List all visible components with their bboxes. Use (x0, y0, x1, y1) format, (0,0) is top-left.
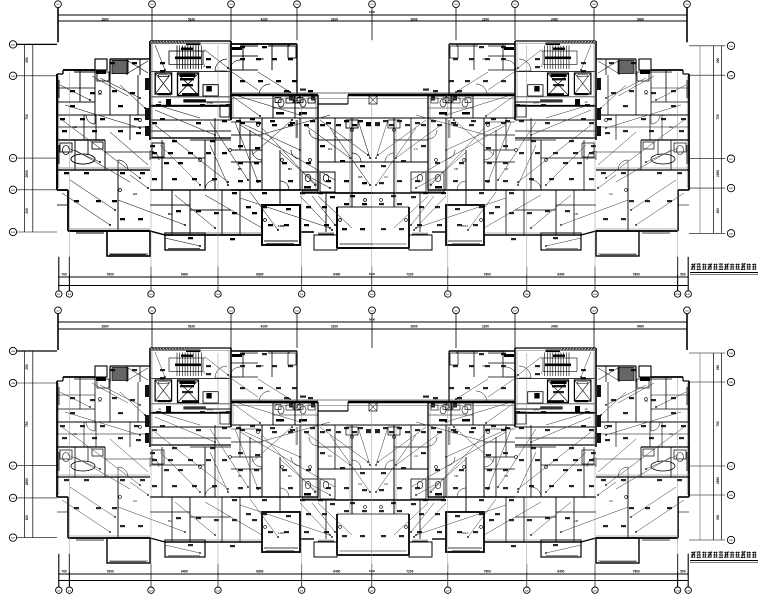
label speck 53 (70, 105, 75, 107)
plan2 bottom axis stem B10 (677, 554, 679, 587)
mid band top wall inner face (231, 98, 515, 100)
door arc rm8 (205, 180, 215, 190)
svg-text:5-C: 5-C (729, 466, 733, 468)
label speck 105 (120, 218, 125, 220)
mid band top wall thick left segment (231, 94, 318, 96)
plan2 axis grid line G9 (677, 378, 679, 572)
plan2 left axis bubble L1 (9, 347, 16, 354)
elevator 2 door sill (182, 93, 198, 95)
wing wall h y127 (57, 126, 150, 128)
svg-text:300: 300 (716, 515, 720, 521)
svg-text:5-A: 5-A (729, 352, 733, 355)
plan2 left dim vline 1 (24, 351, 26, 538)
plan1 left dim vline 2 (32, 44, 34, 232)
plan2 right axis bubble R1 (727, 349, 734, 356)
wire w9 end dot (369, 184, 371, 186)
svg-text:5-B: 5-B (729, 382, 733, 384)
svg-text:7600: 7600 (484, 569, 491, 573)
bottom inner face 2 (165, 232, 262, 234)
plan2 left axis bubble L4 (9, 494, 16, 501)
plan1 bottom axis stem B4 (217, 267, 219, 291)
elevator 1 X b (155, 73, 172, 94)
elevator machine room (203, 85, 218, 96)
lobby text 176kg (183, 99, 205, 102)
wire x3 (160, 106, 200, 118)
mid wall h y162b (231, 161, 262, 163)
svg-text:700: 700 (61, 272, 67, 276)
plan2 axis grid line G3 (217, 353, 219, 572)
plan1 left dim vline 1 (24, 44, 26, 232)
label speck 94 (176, 210, 181, 212)
label speck 77 (366, 124, 371, 126)
wire w12 end dot (247, 179, 249, 181)
plan2 right dim vline 2 (721, 353, 723, 540)
wire w10 end dot (199, 245, 201, 247)
label speck 107 (74, 200, 79, 202)
balcony B outline (165, 233, 205, 250)
plan2 left axis tick L4 (16, 497, 57, 499)
bottom strip wall v x222 (221, 190, 223, 235)
label speck 87 (362, 182, 367, 184)
wire w17 end dot (227, 67, 229, 69)
wire w30 (100, 78, 140, 98)
plan2 bottom axis stem B8 (526, 564, 528, 587)
bath small box 1 (275, 98, 281, 103)
corridor bottom line (150, 137, 231, 139)
wire w10 (165, 238, 200, 246)
duct box X b (294, 96, 300, 103)
label speck 73 (304, 124, 309, 126)
plan1 bottom axis bubble B10 (674, 291, 680, 297)
plan2 bottom axis stem B11 (687, 554, 689, 587)
plan1 top dimension line 1 (58, 14, 688, 16)
label speck 117 (292, 80, 297, 82)
plan2 bottom axis bubble B2 (66, 587, 72, 593)
plan1 bottom axis bubble B4 (215, 291, 221, 297)
plan2 top axis bubble T4 (294, 307, 301, 314)
wall left outer inner face (58, 76, 60, 188)
label speck 89 (262, 206, 267, 208)
plan1 top dimension line 2 (58, 20, 688, 22)
label speck 78 (238, 162, 243, 164)
label speck 42 (226, 104, 231, 106)
wire w29 end dot (329, 187, 331, 189)
wire w23 end dot (139, 127, 141, 129)
basin left wing (92, 142, 103, 149)
svg-text:500: 500 (680, 272, 686, 276)
label speck 112 (272, 58, 277, 60)
plan1 top axis bubble T1 (55, 1, 62, 8)
plan1 top axis bubble T2 (149, 1, 156, 8)
shaft diagonal (128, 61, 148, 73)
wire w2 end dot (114, 209, 116, 211)
plan1 top axis bubble T7 (512, 1, 519, 8)
svg-text:750: 750 (25, 114, 29, 120)
wire w17 (205, 50, 228, 68)
wire w21 (210, 145, 228, 185)
plan2 bottom axis bubble B10 (674, 587, 680, 593)
svg-text:2600: 2600 (410, 324, 417, 328)
svg-text:7800: 7800 (633, 569, 640, 573)
light symbol 1 (99, 91, 102, 94)
plan2 bottom dimension line 1 (58, 573, 689, 575)
plan2 bottom axis bubble B4 (215, 587, 221, 593)
x318 inner face (315, 95, 317, 190)
plan1 right axis tick R1 (689, 45, 725, 47)
label speck 19 (150, 145, 155, 147)
light symbol 7 (199, 159, 202, 162)
label speck 121 (206, 66, 211, 68)
bathroom 2 (295, 96, 318, 118)
plan2 axis grid line G6 (447, 403, 449, 572)
svg-text:6400: 6400 (557, 569, 564, 573)
plan2 right outer extension line (699, 353, 701, 540)
mid band top second line (231, 92, 515, 94)
bathtub left wing (71, 154, 95, 164)
svg-text:6800: 6800 (256, 272, 263, 276)
svg-text:6400: 6400 (369, 569, 376, 573)
label speck 59 (136, 132, 141, 134)
plan2 top axis bubble T8 (591, 307, 598, 314)
label speck 69 (240, 122, 245, 124)
wire w20 (160, 145, 200, 185)
label speck 16 (320, 145, 325, 147)
label speck 75 (336, 124, 341, 126)
label speck 66 (172, 178, 177, 180)
label speck 13 (366, 122, 371, 124)
svg-text:4200: 4200 (260, 324, 267, 328)
svg-text:5-E: 5-E (11, 232, 15, 234)
svg-text:5-B: 5-B (11, 76, 15, 78)
floor plan right half (mirrored) (231, 41, 689, 256)
wire w24 end dot (299, 149, 301, 151)
label speck 90 (306, 206, 311, 208)
svg-text:6800: 6800 (256, 569, 263, 573)
wire w32 end dot (369, 157, 371, 159)
wire w33 end dot (334, 224, 336, 226)
svg-text:5-E: 5-E (11, 538, 15, 540)
svg-text:5-D: 5-D (11, 190, 15, 192)
bath text blob 2 (299, 112, 307, 115)
toilet bowl (63, 146, 70, 155)
svg-text:750: 750 (25, 421, 29, 427)
wire w13 (118, 200, 185, 225)
wire w30 end dot (139, 97, 141, 99)
bottom strip wall v x172 (171, 190, 173, 235)
elevator 1 X a (155, 73, 172, 94)
plan1 right axis tick R3 (689, 158, 725, 160)
plan1 bottom axis stem B7 (447, 267, 449, 291)
svg-text:6400: 6400 (369, 272, 376, 276)
wire w13 end dot (184, 224, 186, 226)
label speck 82 (238, 180, 243, 182)
room wall h y190 left (150, 189, 231, 191)
corridor inner line (231, 121, 260, 123)
svg-text:5100: 5100 (188, 324, 195, 328)
plan2 top axis bubble T6 (453, 307, 460, 314)
wing wall v x96b (95, 115, 97, 140)
light symbol 9 (119, 189, 122, 192)
elevator 1 shaft (155, 73, 172, 94)
plan1 bottom axis bubble B5 (299, 291, 305, 297)
lobby room wall h y158 (150, 157, 205, 159)
plan1 bottom axis bubble B3 (148, 291, 154, 297)
wall bath bottom (57, 169, 150, 171)
wire w11 end dot (291, 119, 293, 121)
door arc entrance 2 (259, 84, 270, 95)
plan1 bottom axis bubble B6 (369, 291, 375, 297)
label speck 114 (240, 80, 245, 82)
entrance right wall (296, 44, 298, 95)
wire w5 end dot (257, 181, 259, 183)
label speck 110 (240, 58, 245, 60)
core A right wall (230, 41, 232, 120)
elevator 2 X b (178, 73, 199, 96)
plan2 bottom axis stem B7 (447, 564, 449, 587)
bottom strip wall v x240 (239, 190, 241, 235)
label speck 97 (232, 212, 237, 214)
plan2 bottom axis stem B3 (150, 564, 152, 587)
room wall h y162 (318, 161, 373, 163)
plan 2 group (translated copy) (57, 348, 689, 563)
entrance closet (288, 46, 296, 58)
mid wall h y140b (318, 139, 352, 141)
plan1 right axis bubble R1 (727, 42, 734, 49)
label speck 11 (344, 120, 349, 122)
label speck 84 (288, 180, 293, 182)
wire w33 (312, 196, 335, 225)
plan1 top axis stem T7 (514, 8, 516, 41)
wire x2 (92, 76, 128, 96)
svg-text:5-B: 5-B (11, 383, 15, 385)
plan2 bottom axis stem B2 (68, 554, 70, 587)
label speck 115 (258, 80, 263, 82)
plan2 top axis bubble T3 (228, 307, 235, 314)
wall bath v1 (74, 140, 76, 170)
core A top wall (150, 40, 231, 42)
plan1 left axis tick L1 (16, 43, 57, 45)
wire w14 end dot (331, 229, 333, 231)
plan1 left axis bubble L5 (9, 228, 16, 235)
entrance inner wall (231, 69, 258, 71)
svg-text:6400: 6400 (557, 272, 564, 276)
plan2 bottom axis bubble B11 (685, 587, 691, 593)
svg-text:750: 750 (716, 421, 720, 427)
label speck 8 (290, 122, 295, 124)
plan2 left axis bubble L2 (9, 379, 16, 386)
svg-text:290: 290 (25, 57, 29, 63)
wire w22 end dot (214, 227, 216, 229)
wire x10 (232, 72, 258, 90)
label speck 102 (324, 224, 329, 226)
closet wall v x80 (79, 70, 81, 102)
svg-text:5-10: 5-10 (675, 294, 680, 296)
label speck 32 (318, 192, 323, 194)
wire x8 (110, 132, 148, 165)
plan2 title text (simulated characters) (691, 551, 756, 558)
plan2 bottom axis bubble B8 (524, 587, 530, 593)
plan1 title underline 2 (690, 274, 758, 276)
label speck 81 (306, 162, 311, 164)
window right wall mid (296, 120, 297, 138)
light symbol 6 (351, 129, 354, 132)
plan2 top axis bubble T2 (149, 307, 156, 314)
label speck 12 (358, 120, 363, 122)
wire w35 (130, 175, 148, 188)
plan2 top axis stem T6 (455, 314, 457, 348)
label speck 56 (62, 130, 67, 132)
wire w18 end dot (89, 99, 91, 101)
label speck 98 (252, 212, 257, 214)
small bath 4 (320, 172, 335, 192)
plan2 right axis bubble R5 (727, 536, 734, 543)
plan1 axis grid line G3 (217, 45, 219, 275)
plan1 bottom axis bubble B11 (685, 291, 691, 297)
label speck 34 (110, 62, 115, 64)
wire x5 (260, 115, 330, 135)
plan1 axis grid line G6 (447, 95, 449, 275)
svg-text:5-D: 5-D (11, 498, 15, 500)
label speck 3 (196, 122, 201, 124)
plan1 right dim vline 1 (713, 46, 715, 234)
label speck 18 (360, 165, 365, 167)
basin 1 (286, 98, 293, 103)
plan1 bottom dimension line 2 (58, 285, 689, 287)
bath dark spot 1 (289, 97, 293, 101)
plan2 right axis tick R4 (689, 494, 725, 496)
wire w19 (68, 148, 100, 162)
label speck 109 (112, 200, 117, 202)
label speck 41 (200, 104, 205, 106)
plan2 right axis tick R1 (689, 352, 725, 354)
window balcony B front (168, 249, 200, 250)
room wall v x250 (249, 130, 251, 190)
room wall h y193 left (300, 192, 335, 194)
basin 2 (308, 98, 315, 103)
window entrance top (240, 45, 258, 46)
plan2 bottom dimension line 2 (58, 580, 689, 582)
center duct X-box (369, 96, 377, 104)
plan2 top dimension line 2 (58, 328, 688, 330)
svg-text:7200: 7200 (406, 569, 413, 573)
core A top dark bar (186, 43, 201, 46)
elevator 2 X a (178, 73, 199, 96)
svg-text:2200: 2200 (482, 324, 489, 328)
label speck 83 (256, 180, 261, 182)
svg-text:700: 700 (61, 569, 67, 573)
elevator 1 door sill (158, 93, 171, 95)
plan1 left axis tick L3 (16, 157, 57, 159)
wing wall v x110b (109, 75, 111, 115)
core lobby divider (150, 71, 231, 73)
door arc rm5 (291, 150, 300, 159)
svg-text:7600: 7600 (107, 272, 114, 276)
wall bath v3 (104, 140, 106, 170)
plan2 left axis tick L1 (16, 350, 57, 352)
bath small box 2 (297, 98, 303, 103)
plan1 top axis bubble T8 (591, 1, 598, 8)
plan2 bottom axis bubble B1 (56, 587, 62, 593)
label speck 100 (284, 224, 289, 226)
plan1 left axis bubble L4 (9, 186, 16, 193)
elevator 2 shaft (178, 73, 199, 96)
label speck 25 (64, 172, 69, 174)
plan1 axis grid line G9 (677, 70, 679, 275)
plan1 axis grid line G8 (594, 45, 596, 275)
label speck 51 (112, 90, 117, 92)
label speck 1 (152, 122, 157, 124)
wire w22 (175, 195, 215, 228)
label speck 55 (134, 118, 139, 120)
plan1 right axis tick R5 (689, 232, 725, 234)
plan1 right axis tick R4 (689, 187, 725, 189)
plan1 bottom dimension line 1 (58, 276, 689, 278)
wire w6 (262, 128, 315, 185)
svg-text:5-10: 5-10 (675, 590, 680, 592)
label speck 80 (282, 162, 287, 164)
label speck 10 (326, 122, 331, 124)
plan2 axis grid line G5 (371, 403, 373, 572)
wing wall h y88 (57, 87, 95, 89)
plan2 title underline 1 (690, 560, 758, 562)
label speck 58 (118, 130, 123, 132)
label speck 4 (222, 120, 227, 122)
plan1 top axis stem T1 (57, 8, 59, 43)
plan2 top axis stem T7 (514, 314, 516, 348)
plan1 top axis stem T3 (230, 8, 232, 41)
door arc rm3 (150, 151, 159, 160)
label speck 2 (160, 118, 165, 120)
plan1 bottom axis bubble B7 (445, 291, 451, 297)
window wing bottom (76, 232, 104, 233)
lobby room wall v x205 (204, 140, 206, 190)
lobby closet (152, 143, 164, 157)
svg-text:5-C: 5-C (729, 159, 733, 161)
wall step vertical (67, 190, 69, 231)
lower block inner line (264, 240, 298, 242)
plan1 top axis stem T8 (593, 8, 595, 41)
wall interior v1 (94, 70, 96, 115)
wire w2 (70, 180, 115, 210)
wall shaft left (109, 59, 111, 75)
window left wall 1 (58, 80, 59, 98)
plan2 top axis stem T8 (593, 314, 595, 348)
plan2 bottom axis bubble B7 (445, 587, 451, 593)
plan2 top axis stem T2 (151, 314, 153, 348)
label speck 31 (300, 192, 305, 194)
svg-text:5-A: 5-A (11, 44, 15, 47)
plan2 left axis bubble L3 (9, 462, 16, 469)
label speck 79 (254, 162, 259, 164)
label speck 33 (350, 195, 355, 197)
label speck 38 (284, 90, 289, 92)
wing step inner (57, 204, 68, 206)
svg-text:5-C: 5-C (11, 158, 15, 160)
wire w11 (252, 120, 292, 155)
wire w6 end dot (314, 184, 316, 186)
wall left outer (56, 74, 58, 190)
wire w4 end dot (227, 181, 229, 183)
mid wall v x240 (239, 118, 241, 150)
label speck 40 (156, 104, 161, 106)
room wall h y190 (231, 189, 318, 191)
wc 2 (300, 99, 306, 107)
plan2 left axis tick L2 (16, 382, 57, 384)
corridor line (150, 130, 231, 132)
wire w32 (358, 120, 370, 158)
center balcony bottom wall (337, 247, 373, 249)
balcony C outline (314, 235, 337, 250)
